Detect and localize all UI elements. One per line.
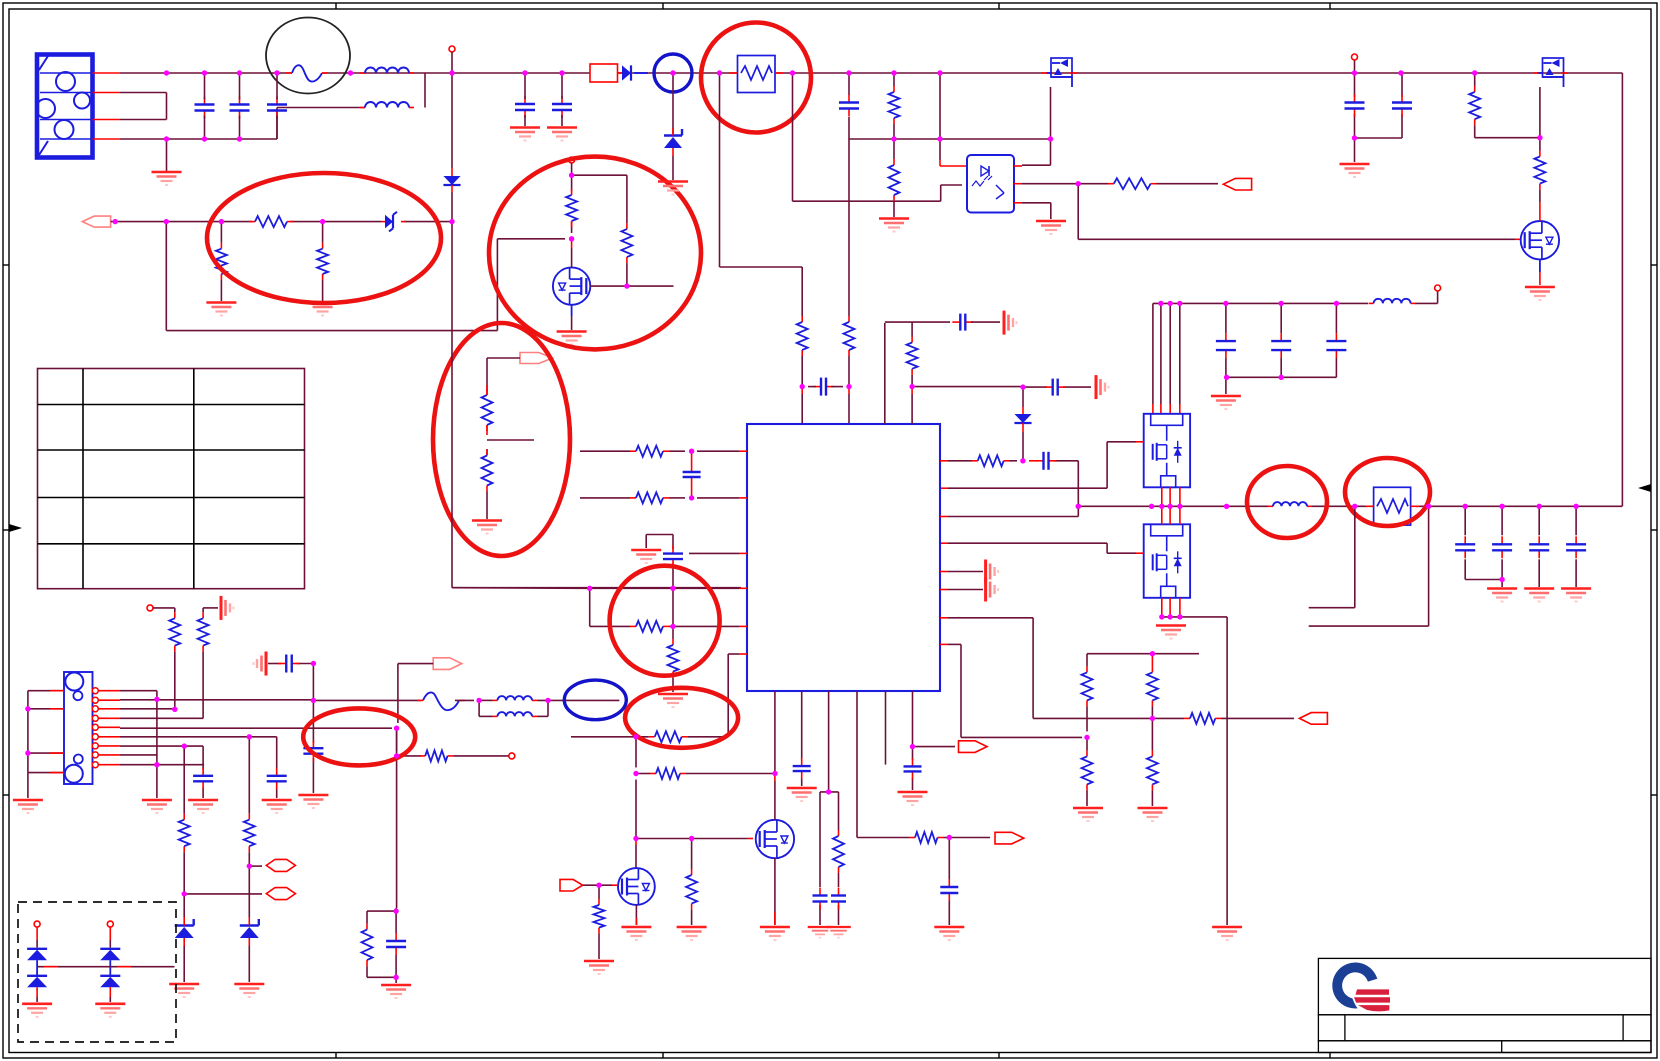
wire U1 ref row — [452, 587, 747, 590]
capacitor CY2 — [552, 73, 572, 126]
ground GND30 — [934, 927, 964, 940]
wire Q5 source — [1539, 259, 1541, 285]
annotation ellipse A5 — [701, 23, 811, 133]
rail RGND3 — [1004, 311, 1017, 335]
inductor L5 — [493, 712, 538, 716]
resistor R3 — [317, 222, 328, 301]
capacitor C8 — [1455, 506, 1502, 579]
resistor R23 — [630, 621, 669, 632]
wire cap bridge — [1226, 377, 1337, 394]
rail RGND6 — [254, 652, 267, 676]
capacitor C20 — [952, 314, 973, 331]
wire opto feed — [940, 73, 967, 166]
capacitor C14 — [663, 546, 683, 568]
wire pin9 net — [120, 764, 204, 766]
wire AC line bus — [120, 72, 1622, 74]
annotation ellipse A6 — [1247, 466, 1327, 538]
optocoupler U2 — [967, 155, 1014, 213]
resistor R26 — [650, 768, 686, 779]
wire pin5 net — [120, 728, 397, 751]
diode stack D8 — [27, 921, 47, 1002]
inductor L2 — [1369, 299, 1416, 304]
port P6 — [995, 832, 1024, 844]
port P4 (OVP) — [1299, 713, 1327, 725]
resistor R16 — [1082, 666, 1093, 731]
wire latch cap — [912, 747, 914, 790]
ground GND9 — [879, 219, 909, 232]
resistor R15 — [972, 455, 1010, 466]
ground GND29 — [826, 927, 851, 938]
resistor R30 — [909, 832, 944, 843]
company logo — [1332, 962, 1391, 1013]
capacitor C12 — [1036, 452, 1057, 470]
capacitor CY1 — [515, 73, 535, 126]
wire nc pin — [885, 691, 887, 765]
wire ipk col — [857, 691, 990, 838]
wire gate link — [1475, 137, 1540, 139]
wire sync row — [571, 736, 728, 738]
resistor R22 — [630, 492, 669, 503]
wire J1 pin stubs — [93, 73, 121, 139]
wire right caps — [1355, 60, 1403, 162]
annotation ellipse A7 — [1345, 458, 1430, 526]
wire J2 left bus — [28, 691, 64, 798]
wire vcc bus — [1153, 291, 1438, 303]
wire Q3 gate drop — [1050, 87, 1052, 139]
wire rc snubber — [367, 908, 396, 983]
ground GND11 — [1340, 164, 1370, 177]
wire U4 input — [940, 543, 1144, 553]
capacitor C23 — [193, 768, 213, 790]
wire ovp row — [1033, 717, 1294, 719]
ground GND18 — [1561, 589, 1591, 602]
wire U1 vref row — [940, 644, 1082, 737]
diode D3 — [618, 65, 649, 80]
ground GND41 — [95, 1004, 125, 1017]
ground GND39 — [234, 984, 264, 997]
ground GND17 — [1524, 589, 1554, 602]
terminal TP4 — [1435, 285, 1441, 291]
wire aux row — [849, 138, 1051, 140]
resistor R6 — [482, 385, 493, 435]
ground GND23 — [621, 927, 651, 940]
resistor R24 — [668, 639, 679, 678]
ground GND20 — [1138, 808, 1168, 821]
wire U4 bottom pins — [1162, 598, 1227, 925]
resistor R28 — [594, 899, 605, 934]
wire sense stub A — [1309, 506, 1355, 607]
resistor R2 — [216, 222, 227, 301]
wire choke right link — [424, 73, 426, 108]
resistor R32 — [169, 612, 180, 651]
capacitor CX3 — [267, 73, 287, 139]
resistor R13 — [1469, 73, 1480, 138]
terminal TP1 — [569, 157, 575, 163]
capacitor C3 — [1345, 95, 1365, 117]
port P9 — [266, 859, 295, 871]
wire pin12 gnd col — [156, 699, 158, 798]
capacitor C11 — [1566, 506, 1586, 587]
wire p8 link — [398, 664, 433, 723]
diode stack D9 — [100, 921, 120, 1002]
resistor R37 — [179, 814, 190, 853]
resistor R17 — [1147, 666, 1158, 718]
port P5 (drive in) — [560, 879, 583, 891]
wire q stack col — [635, 737, 637, 868]
title block — [1318, 958, 1651, 1052]
capacitor C21 — [1045, 379, 1066, 396]
capacitor C15 — [793, 758, 811, 779]
gate driver U4 — [1144, 524, 1190, 598]
wire Q1 gate — [590, 285, 673, 287]
inductor L3 — [1268, 502, 1312, 506]
capacitor C26 — [386, 933, 406, 955]
resistor R29 — [833, 830, 844, 873]
annotation ellipse A2 — [489, 157, 701, 350]
wire rgrid top — [1087, 654, 1199, 667]
capacitor C19 — [904, 758, 922, 779]
wire r col b top — [203, 608, 218, 612]
ground GND25 — [760, 927, 790, 940]
wire gate row2 — [636, 838, 753, 840]
transistor Q1 — [553, 239, 590, 305]
wire HV right drop — [1621, 73, 1623, 506]
wire sense stub B — [1309, 506, 1429, 626]
wire U3 out pins — [1162, 487, 1180, 506]
test box (dashed) — [18, 902, 176, 1042]
rail RGND4 — [1096, 375, 1109, 399]
resistor R9 — [844, 316, 855, 356]
transistor Q4 (pass fet) — [1534, 58, 1568, 87]
rail RGND2 — [986, 578, 999, 602]
relay K1 — [590, 64, 618, 82]
transistor Q7 — [756, 820, 794, 858]
rail RGND1 — [986, 560, 999, 584]
wire fbcomp col — [911, 322, 913, 424]
wire output bus — [1078, 505, 1622, 507]
wire ipk cap — [948, 838, 950, 926]
wire vcc cap col — [801, 691, 803, 786]
wire vs rail link — [971, 321, 1000, 323]
terminal TP2 — [449, 46, 455, 73]
transistor Q5 — [1521, 202, 1559, 259]
ground GND26 — [584, 961, 614, 974]
capacitor C22 — [267, 768, 287, 790]
wire pin4 net — [120, 652, 203, 719]
capacitor C10 — [1529, 506, 1549, 587]
ground GND32 — [13, 800, 43, 813]
resistor R20 — [1184, 713, 1221, 724]
port P7 — [959, 741, 988, 753]
ground GND24 — [677, 927, 707, 940]
wire pin8 net — [120, 754, 157, 756]
resistor R27 — [686, 839, 697, 926]
capacitor C7 — [1326, 303, 1346, 377]
port P10 — [266, 888, 295, 900]
wire surge net — [111, 221, 452, 223]
ground GND37 — [381, 985, 411, 998]
wire bypass hook — [646, 535, 673, 589]
capacitor C1 — [839, 95, 859, 117]
resistor R1 — [249, 216, 293, 227]
wire p5 pulldown — [598, 885, 600, 959]
capacitor C17 — [831, 888, 846, 910]
wire css col — [820, 691, 839, 925]
diode D5 — [1014, 387, 1031, 461]
fuse highlight circle — [266, 18, 350, 94]
thermistor RT2 — [1365, 487, 1419, 525]
capacitor C18 — [940, 879, 958, 901]
wire J1 pin2-3 tie — [120, 93, 167, 120]
ground GND40 — [22, 1004, 52, 1017]
ground GND36 — [298, 795, 328, 808]
transistor Q3 (hv switch) — [1042, 58, 1078, 87]
wire pin6 net — [120, 737, 277, 798]
wire sense col — [893, 73, 895, 217]
wire TVS gnd — [672, 156, 674, 180]
resistor R25 — [649, 731, 688, 742]
ground GND16 — [1487, 589, 1517, 602]
resistor R7 — [482, 450, 493, 520]
diode D2 — [443, 168, 460, 192]
wire pin1 net — [120, 691, 157, 700]
ground GND1 — [152, 172, 182, 185]
port P3 (FB) — [1223, 178, 1251, 190]
wire diode link — [37, 966, 174, 968]
wire fb row — [1014, 183, 1218, 185]
wire bundle w4 — [1179, 303, 1181, 413]
capacitor C24 — [278, 655, 300, 673]
wire U1 rt row — [728, 654, 747, 737]
resistor R31 — [907, 337, 918, 375]
wire bundle w3 — [1169, 303, 1171, 413]
port P1 (AC detect) — [82, 216, 110, 227]
wire pin7 net — [120, 746, 203, 798]
capacitor C2 — [808, 378, 843, 396]
wire pwm col — [396, 728, 398, 908]
wire primary drop B — [793, 73, 963, 201]
resistor R5 — [621, 175, 632, 286]
gate driver U3 — [1144, 414, 1190, 488]
wire port row b — [184, 893, 262, 895]
resistor R34 — [419, 750, 453, 761]
capacitor C25 — [303, 740, 323, 762]
wire neutral bus — [120, 108, 365, 140]
wire q6 gnd — [635, 905, 637, 925]
wire ref divider — [590, 588, 747, 626]
wire fb drop — [1078, 184, 1521, 240]
capacitor C4 — [1392, 95, 1412, 117]
resistor R12 — [1108, 178, 1157, 189]
revision table — [38, 369, 305, 589]
wire earth drop — [166, 139, 168, 171]
capacitor C5 — [1216, 303, 1236, 377]
varistor D1 — [381, 212, 406, 232]
wire fb net row — [912, 386, 1091, 389]
annotation ellipse A10 — [564, 680, 626, 720]
wire U1 cs row — [940, 618, 1033, 719]
fuse F2 — [417, 692, 465, 710]
ground GND22 — [658, 694, 688, 707]
rail RGND5 — [221, 596, 234, 620]
port P8 — [433, 658, 462, 670]
ground GND31 — [898, 792, 928, 805]
ground GND13 — [1211, 396, 1241, 409]
annotation ellipse A11 — [303, 708, 415, 765]
resistor R19 — [1147, 718, 1158, 806]
wire opto out top — [1014, 139, 1051, 166]
ground GND28 — [808, 927, 833, 938]
transistor Q6 — [618, 868, 655, 905]
capacitor CX2 — [230, 73, 250, 139]
terminal TP5 — [147, 605, 175, 611]
annotation ellipse A9 — [625, 688, 738, 748]
wire primary drop A — [720, 73, 803, 267]
capacitor C6 — [1271, 303, 1291, 377]
wire Q1 source — [571, 305, 573, 330]
wire divider — [487, 358, 534, 456]
wire HV rail drop — [452, 73, 741, 588]
ground GND33 — [142, 800, 172, 813]
wire bundle w1 — [1152, 303, 1154, 413]
annotation ellipse A3 — [433, 323, 570, 556]
ground GND19 — [1073, 808, 1103, 821]
wire pin2 net — [120, 699, 421, 702]
wire lc out — [537, 700, 619, 716]
port P2 (line sense) — [520, 353, 553, 364]
resistor R8 — [797, 316, 808, 356]
wire pin3 net — [120, 708, 175, 710]
wire surge return — [166, 222, 565, 331]
wire zcol b — [248, 737, 250, 982]
resistor R38 — [244, 814, 255, 853]
wire q7 gnd — [774, 858, 776, 925]
capacitor C9 — [1492, 506, 1512, 587]
connector J1 (AC inlet) — [36, 55, 93, 158]
wire latch pin — [913, 691, 956, 747]
wire ct col — [672, 588, 674, 692]
resistor R11 — [889, 159, 900, 201]
connector J2 pins — [92, 688, 120, 768]
ground GND2 — [206, 303, 236, 316]
controller U1 — [747, 424, 940, 691]
wire U1 vdd row — [689, 552, 747, 554]
wire snubber col A — [801, 267, 803, 424]
resistor R14 — [1534, 151, 1545, 190]
TVS D7 — [240, 917, 259, 946]
resistor R21 — [630, 446, 669, 457]
ground GND4 — [557, 332, 587, 345]
wire sig gnd row — [268, 664, 313, 794]
ground GND35 — [188, 800, 218, 813]
fuse F1 — [286, 65, 328, 81]
terminal TP6 — [454, 753, 515, 759]
terminal TP3 — [1352, 54, 1358, 60]
ground GND21 — [631, 550, 661, 563]
TVS D6 — [175, 917, 194, 946]
wire U1 comp row — [940, 461, 1078, 517]
ground GND38 — [169, 984, 199, 997]
wire U1 fb1 row — [580, 450, 747, 452]
wire U4 top pins — [1162, 506, 1180, 524]
ground GND6 — [510, 128, 540, 141]
ground GND14 — [1156, 626, 1186, 639]
thermistor RT1 — [729, 56, 783, 93]
wire Q4 drop — [1539, 87, 1541, 202]
TVS D4 — [664, 128, 682, 156]
ground GND5 — [472, 521, 502, 534]
ground GND27 — [787, 788, 817, 801]
wire bundle w2 — [1160, 303, 1162, 413]
ground GND7 — [547, 128, 577, 141]
ground GND8 — [658, 182, 688, 195]
inductor L4 — [493, 696, 538, 700]
ground GND10 — [1036, 221, 1066, 234]
inductor L1B — [360, 102, 414, 107]
connector J2 — [64, 672, 93, 784]
wire opto out bottom — [1014, 203, 1051, 219]
inductor L1A — [360, 68, 414, 74]
ground GND3 — [308, 303, 338, 316]
wire zcol a — [183, 746, 185, 982]
resistor R36 — [362, 924, 373, 967]
wire port row a — [249, 865, 262, 867]
ground GND12 — [1525, 287, 1555, 300]
wire U1 fb2 row — [580, 497, 747, 499]
capacitor C16 — [813, 888, 828, 910]
resistor R4 — [566, 189, 577, 227]
wire TVS drop — [672, 73, 674, 134]
annotation ellipse A8 — [610, 566, 720, 676]
annotation ellipse A1 — [207, 173, 441, 303]
wire startup node — [572, 163, 627, 233]
ground GND15 — [1212, 927, 1242, 940]
resistor R33 — [198, 612, 209, 651]
capacitor C13 — [683, 451, 701, 498]
annotation circle A4 — [654, 54, 692, 92]
wire snubber col B — [848, 73, 850, 424]
ground GND34 — [262, 800, 292, 813]
wire pwm branch — [403, 755, 421, 757]
wire U1 gnd pins — [940, 572, 983, 590]
resistor R18 — [1082, 737, 1093, 806]
resistor R10 — [889, 86, 900, 124]
wire vs col — [885, 322, 950, 424]
wire r col a — [174, 608, 176, 709]
wire drv row — [636, 773, 775, 775]
capacitor CX1 — [195, 73, 215, 139]
wire U3 input — [940, 442, 1144, 488]
wire lc node — [455, 700, 493, 716]
wire q7 drain — [774, 691, 776, 820]
wire p5 row — [583, 884, 618, 886]
